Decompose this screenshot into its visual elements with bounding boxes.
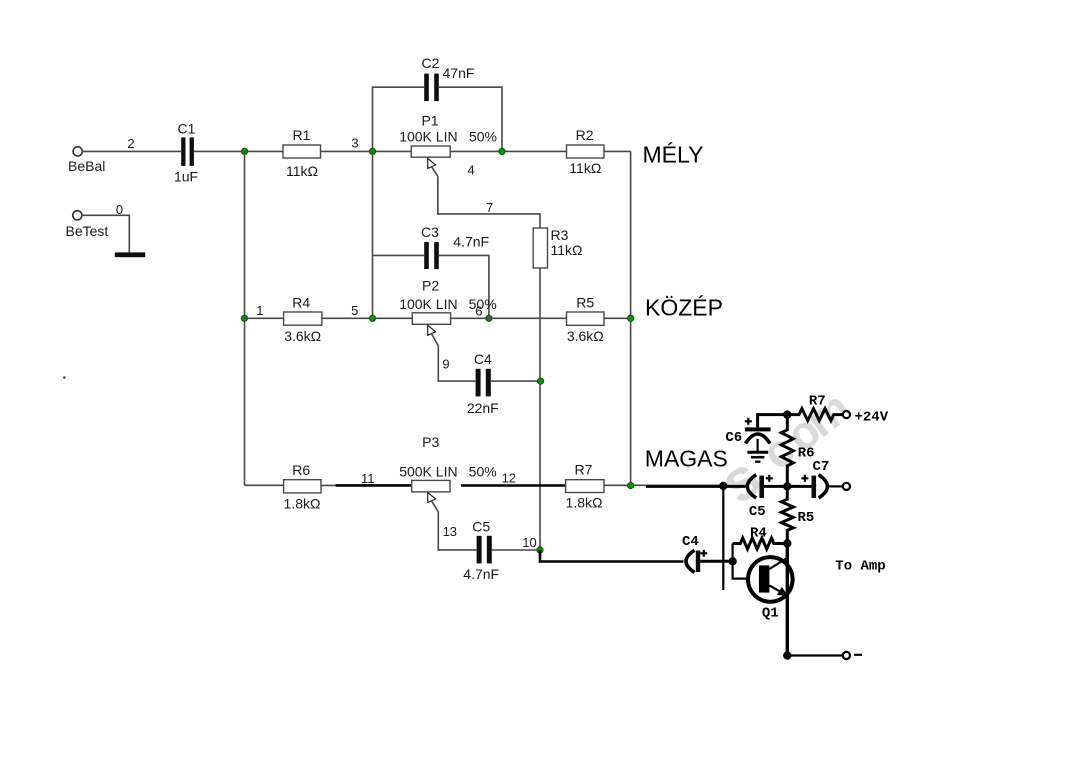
- svg-text:MÉLY: MÉLY: [643, 141, 704, 167]
- wire R1 to P1: [321, 150, 412, 152]
- resistor R1: [283, 127, 321, 179]
- node P2 left: [369, 315, 375, 321]
- capacitor C6 electrolytic: [725, 427, 770, 446]
- svg-text:BeTest: BeTest: [66, 223, 109, 239]
- wire R3 down: [539, 268, 541, 550]
- node 13 label: [443, 524, 457, 539]
- resistor R3: [533, 227, 582, 268]
- wire R4 to P2: [322, 317, 412, 319]
- node emitter bottom: [783, 651, 791, 659]
- C7 plus sign: [801, 475, 808, 482]
- node 10 label: [522, 535, 536, 550]
- label MAGAS: [645, 446, 728, 472]
- node center: [783, 482, 791, 490]
- svg-text:7: 7: [486, 200, 493, 215]
- svg-text:50%: 50%: [469, 296, 497, 312]
- potentiometer P1: [399, 113, 497, 158]
- terminal +24V: [843, 409, 889, 425]
- label KOZEP: [645, 294, 723, 320]
- svg-text:1.8kΩ: 1.8kΩ: [284, 495, 321, 511]
- P3 wiper arrow: [428, 493, 439, 512]
- P1 wiper arrow: [428, 158, 438, 176]
- P2 wiper arrow: [428, 325, 439, 346]
- node top: [783, 410, 791, 418]
- wire R2 to bus: [604, 150, 631, 152]
- wire C5 to node 10: [492, 549, 540, 551]
- node base junction: [728, 557, 736, 565]
- wire C3 left loop: [373, 254, 425, 256]
- wire R4 left down: [731, 544, 733, 562]
- node R5 bottom: [783, 539, 791, 547]
- wire collector-emitter vertical: [786, 544, 789, 656]
- wire left vertical: [244, 151, 246, 485]
- svg-text:R4: R4: [750, 525, 767, 541]
- svg-text:R5: R5: [797, 510, 814, 526]
- resistor R7: [566, 462, 604, 511]
- wire P1 to R2: [450, 150, 566, 152]
- wire P2 wiper net 9: [438, 346, 475, 381]
- svg-text:P2: P2: [422, 278, 439, 294]
- node P2 right: [486, 315, 492, 321]
- svg-text:5: 5: [351, 303, 358, 318]
- wire C2 right loop: [439, 87, 502, 151]
- svg-text:10: 10: [522, 535, 536, 550]
- node 5 label: [351, 303, 358, 318]
- capacitor C2: [422, 55, 475, 101]
- resistor R4 amp: [733, 525, 788, 549]
- terminal minus: [843, 652, 862, 659]
- svg-text:100K LIN: 100K LIN: [399, 129, 457, 145]
- capacitor C7 electrolytic: [812, 459, 830, 498]
- svg-text:C4: C4: [474, 351, 492, 367]
- svg-text:R3: R3: [551, 227, 569, 243]
- svg-text:Q1: Q1: [762, 606, 779, 622]
- transistor Q1: [748, 557, 793, 621]
- wire vertical node3 to node5: [372, 151, 374, 318]
- svg-text:BeBal: BeBal: [68, 158, 105, 174]
- node 0 label: [116, 202, 123, 217]
- terminal BeBal: [68, 147, 105, 174]
- node 3 label: [351, 136, 358, 151]
- svg-text:22nF: 22nF: [467, 400, 499, 416]
- svg-text:P1: P1: [421, 113, 438, 129]
- node P1 left: [369, 148, 375, 154]
- node 6 label: [475, 303, 482, 318]
- label MELY: [643, 141, 704, 167]
- wire bottom to terminal: [787, 654, 843, 656]
- junction MAGAS node: [719, 482, 727, 490]
- svg-text:4.7nF: 4.7nF: [453, 234, 489, 250]
- svg-text:C3: C3: [421, 224, 439, 240]
- node 10: [537, 547, 543, 553]
- capacitor C3: [421, 224, 489, 269]
- svg-text:100K LIN: 100K LIN: [399, 296, 457, 312]
- node 4 label: [467, 163, 474, 178]
- node C4 junction: [538, 378, 544, 384]
- bus wire vertical: [630, 151, 632, 485]
- wire R6 to P3: [321, 484, 412, 486]
- wire junction to C5e: [723, 485, 748, 488]
- stray dot: [63, 376, 66, 379]
- svg-text:1.8kΩ: 1.8kΩ: [566, 495, 603, 511]
- wire C1 to node: [194, 150, 283, 152]
- wire C3 right loop: [439, 255, 489, 318]
- node 2 label: [127, 136, 134, 151]
- svg-text:3.6kΩ: 3.6kΩ: [567, 328, 604, 344]
- node 11 label: [361, 471, 375, 486]
- svg-text:MAGAS: MAGAS: [645, 446, 728, 472]
- svg-text:+24V: +24V: [855, 409, 889, 425]
- svg-text:11kΩ: 11kΩ: [569, 160, 601, 176]
- wire stub below junction: [722, 486, 724, 590]
- resistor R4: [284, 295, 322, 345]
- svg-text:R7: R7: [809, 393, 826, 409]
- capacitor C5 4.7nF: [463, 519, 499, 583]
- wire R5 to bus: [604, 317, 631, 319]
- wire C2 left loop: [373, 87, 425, 151]
- node 7 label: [486, 200, 493, 215]
- svg-text:To Amp: To Amp: [835, 559, 885, 575]
- wire P2 to R5: [451, 317, 567, 319]
- svg-text:3: 3: [351, 136, 358, 151]
- C5 plus sign: [766, 475, 773, 482]
- svg-text:13: 13: [443, 524, 457, 539]
- svg-text:R6: R6: [798, 445, 815, 461]
- svg-text:R4: R4: [292, 295, 310, 311]
- svg-text:1: 1: [256, 303, 263, 318]
- svg-text:11kΩ: 11kΩ: [286, 163, 318, 179]
- wire P1 wiper net 7: [438, 176, 540, 228]
- svg-text:C2: C2: [422, 55, 440, 71]
- svg-text:R1: R1: [293, 127, 311, 143]
- resistor R2: [567, 127, 605, 176]
- C6 plus sign: [745, 418, 752, 425]
- svg-text:47nF: 47nF: [443, 65, 475, 81]
- wire BeBal to C1: [82, 150, 181, 152]
- potentiometer P3: [399, 434, 497, 492]
- ground: [115, 252, 145, 257]
- wire top node to C6: [758, 415, 786, 428]
- wire BeTest to ground: [82, 215, 129, 252]
- svg-text:R6: R6: [292, 462, 310, 478]
- node C1 junction: [241, 148, 247, 154]
- capacitor C5 electrolytic: [747, 475, 765, 520]
- capacitor C4 electrolytic: [682, 534, 700, 572]
- node 12 label: [502, 471, 516, 486]
- C6 stem: [756, 439, 758, 451]
- wire P3 to R7 thick: [461, 484, 566, 487]
- node bus MAGAS: [628, 482, 634, 488]
- wire R7 to MAGAS junction: [604, 485, 723, 486]
- capacitor C4 22nF: [467, 351, 499, 416]
- svg-text:50%: 50%: [469, 463, 497, 479]
- wire C4 to R3 line: [491, 380, 541, 382]
- svg-text:P3: P3: [422, 434, 439, 450]
- watermark: [708, 376, 864, 516]
- C4 plus sign: [700, 550, 707, 557]
- resistor R7 amp: [787, 393, 842, 420]
- resistor R5: [567, 295, 605, 345]
- svg-text:3.6kΩ: 3.6kΩ: [284, 328, 321, 344]
- wire C4e to base junction: [700, 560, 730, 563]
- svg-text:4.7nF: 4.7nF: [463, 566, 499, 582]
- svg-text:C5: C5: [749, 504, 766, 520]
- resistor R6: [284, 462, 321, 511]
- svg-text:50%: 50%: [469, 129, 497, 145]
- resistor R5 amp: [781, 486, 814, 543]
- node 1 label: [256, 303, 263, 318]
- svg-text:C6: C6: [725, 430, 742, 446]
- capacitor C1: [174, 121, 198, 185]
- potentiometer P2: [399, 278, 497, 325]
- wire base lead: [733, 561, 749, 578]
- svg-text:500K LIN: 500K LIN: [399, 463, 457, 479]
- wire C5e to center node: [764, 485, 812, 488]
- wire P3 wiper net 13: [438, 512, 476, 550]
- node row2 left: [241, 315, 247, 321]
- svg-text:4: 4: [467, 163, 474, 178]
- svg-text:6: 6: [475, 303, 482, 318]
- terminal BeTest: [66, 211, 109, 239]
- wire node10 to C4 electrolytic: [540, 550, 684, 562]
- svg-text:12: 12: [502, 471, 516, 486]
- wire node1 to R4: [244, 317, 283, 319]
- svg-text:C7: C7: [812, 459, 829, 475]
- node bus KOZEP: [628, 315, 634, 321]
- label To Amp: [835, 559, 885, 575]
- svg-text:R7: R7: [575, 462, 593, 478]
- svg-text:C5: C5: [472, 519, 490, 535]
- svg-text:11: 11: [361, 471, 375, 486]
- resistor R6 amp: [781, 415, 814, 487]
- wire row3 left corner: [245, 484, 284, 486]
- svg-text:11kΩ: 11kΩ: [551, 242, 583, 258]
- node 9 label: [442, 357, 449, 372]
- svg-text:C4: C4: [682, 534, 699, 550]
- svg-text:1uF: 1uF: [174, 169, 198, 185]
- svg-text:9: 9: [442, 357, 449, 372]
- svg-text:R2: R2: [576, 127, 594, 143]
- svg-text:C1: C1: [178, 121, 196, 137]
- svg-text:R5: R5: [576, 295, 594, 311]
- wire C7 to out terminal: [827, 485, 843, 487]
- ground C6: [747, 452, 768, 461]
- svg-text:KÖZÉP: KÖZÉP: [645, 294, 723, 320]
- svg-text:2: 2: [127, 136, 134, 151]
- terminal out: [843, 483, 850, 490]
- node P1 right: [499, 148, 505, 154]
